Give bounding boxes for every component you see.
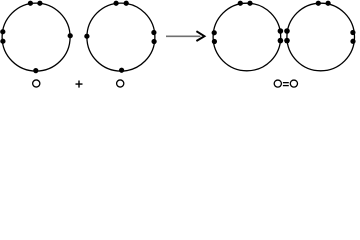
O2 top lone pair [113,1,128,6]
label O=O under molecule: first O [274,80,281,87]
shared bonding pair on right shell [284,28,290,43]
label O under second atom [117,80,124,87]
O1 right unpaired electron [68,33,73,38]
molecule right atom top lone pair [316,1,331,6]
label O=O: second O [290,80,297,87]
oxygen atom O2 shell [87,3,155,71]
O1 top lone pair [28,1,43,6]
molecule left atom top lone pair [238,1,253,6]
O2 right lone pair [151,30,156,44]
reaction arrow head [196,31,204,41]
label O under first atom [33,80,40,87]
molecule right oxygen shell [287,3,355,71]
plus sign [76,81,83,88]
reaction arrow shaft [166,35,200,37]
molecule left oxygen shell [213,3,281,71]
molecule right atom outer lone pair [350,30,355,44]
O2 left unpaired electron [84,34,89,39]
O2 bottom unpaired electron [119,68,124,73]
O1 left lone pair [0,29,5,44]
label O=O: equals sign [283,83,289,86]
shared bonding pair on left shell [278,28,284,43]
O1 bottom unpaired electron [33,68,38,73]
molecule left atom outer lone pair [212,30,217,44]
oxygen atom O1 shell [2,3,70,71]
